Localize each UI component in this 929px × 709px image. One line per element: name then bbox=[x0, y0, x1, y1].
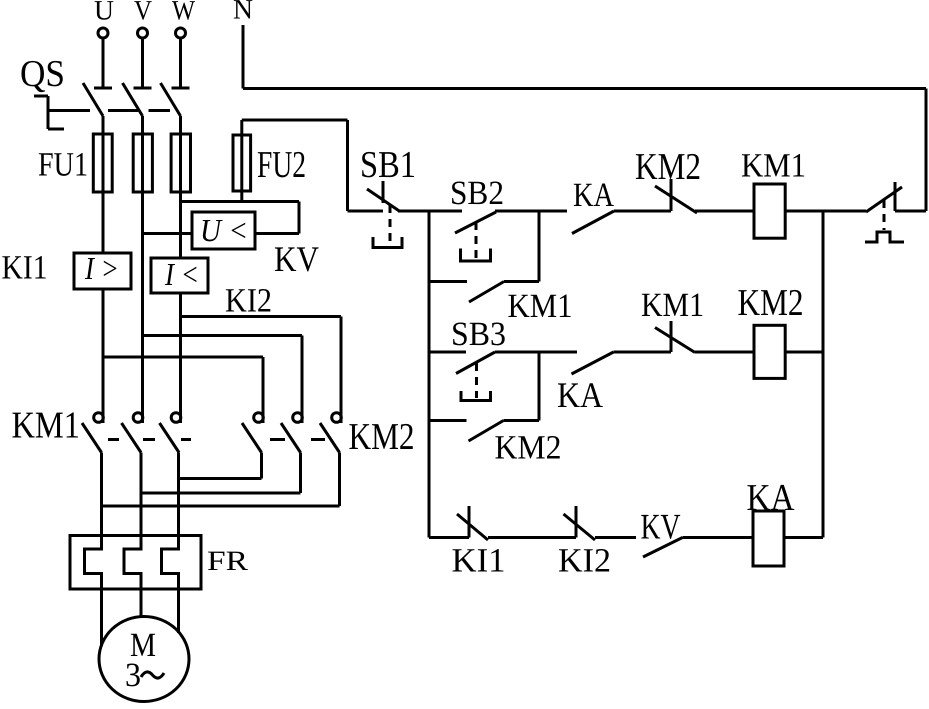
FR heater element 1 bbox=[85, 536, 102, 590]
disconnect switch QS pole W bbox=[161, 83, 190, 134]
rung3: wire bus to KI1 bbox=[429, 536, 469, 539]
wire V fuse down bbox=[141, 192, 144, 423]
wire KM1 coil to limit switch bbox=[785, 210, 866, 213]
fuse FU2 bbox=[233, 120, 251, 202]
terminal W bbox=[176, 28, 186, 38]
svg-text:KM1: KM1 bbox=[12, 405, 81, 447]
wire W terminal to QS bbox=[179, 38, 182, 88]
svg-text:FR: FR bbox=[207, 546, 248, 577]
svg-text:KM2: KM2 bbox=[635, 146, 701, 188]
contact KV NO bbox=[643, 538, 683, 558]
wire U terminal to QS bbox=[102, 38, 105, 88]
svg-text:FU2: FU2 bbox=[257, 144, 306, 186]
svg-text:KM2: KM2 bbox=[495, 430, 562, 467]
svg-text:KM1: KM1 bbox=[508, 288, 573, 325]
svg-text:KI2: KI2 bbox=[225, 283, 272, 320]
wire parallel branch bottom left bbox=[429, 280, 467, 283]
contact KI1 NC bbox=[457, 506, 488, 540]
contactor KM2 main contact 2 bbox=[281, 413, 302, 453]
contactor KM2 main contact 1 bbox=[242, 413, 263, 453]
svg-text:KI1: KI1 bbox=[452, 543, 506, 580]
contactor coil KM2 bbox=[754, 325, 785, 378]
left control bus bbox=[428, 211, 431, 538]
svg-text:SB1: SB1 bbox=[360, 144, 416, 186]
svg-text:KV: KV bbox=[274, 239, 319, 279]
svg-text:QS: QS bbox=[20, 53, 65, 95]
svg-text:3: 3 bbox=[125, 657, 141, 694]
svg-text:U: U bbox=[94, 0, 114, 27]
wire FR to motor 1 bbox=[100, 589, 103, 646]
wire FU2 top to SB1 feed bbox=[242, 120, 348, 211]
wire parallel branch bottom right bbox=[504, 280, 539, 283]
contactor KM1 main contact 2 bbox=[122, 413, 143, 453]
wire KV to KA coil bbox=[683, 536, 754, 539]
svg-text:V: V bbox=[134, 0, 152, 27]
svg-text:KA: KA bbox=[557, 375, 603, 415]
rung2: wire bus to SB3 bbox=[429, 351, 466, 354]
svg-text:I >: I > bbox=[84, 250, 119, 286]
svg-text:KM1: KM1 bbox=[641, 287, 704, 324]
wire KM2-1 output tie bbox=[179, 453, 262, 479]
fuse FU1 pole V bbox=[133, 134, 152, 192]
contact KM2 NC interlock rung1 bbox=[655, 179, 697, 213]
wire KM1-1 output bbox=[100, 453, 103, 536]
QS mechanical linkage dashed bbox=[48, 109, 90, 112]
svg-text:SB2: SB2 bbox=[450, 175, 504, 212]
contact KA NO rung2 bbox=[572, 352, 614, 374]
wire KM2 parallel bottom right bbox=[504, 419, 540, 422]
wire KV coil to V phase bbox=[143, 232, 193, 235]
contactor KM1 main contact 3 bbox=[160, 413, 181, 453]
pushbutton SB3 (NO start rev) bbox=[456, 352, 495, 401]
right control bus bbox=[822, 211, 825, 538]
SB2 parallel branch right leg bbox=[538, 211, 541, 282]
svg-text:KM1: KM1 bbox=[741, 148, 806, 185]
relay coil KA bbox=[753, 511, 784, 566]
wire KI1 to KI2 bbox=[488, 536, 576, 539]
contact KM1 aux (seal-in) bbox=[469, 282, 504, 303]
wire KM2-2 output tie bbox=[141, 453, 301, 494]
KM2 linkage dashes bbox=[270, 438, 325, 441]
contactor coil KM1 bbox=[754, 184, 785, 238]
KM1 linkage dashes bbox=[108, 438, 191, 441]
wire W below KI2 bbox=[179, 293, 182, 423]
FR heater element 3 bbox=[162, 536, 179, 590]
wire SB2 to KA contact bbox=[495, 210, 567, 213]
wire FR to motor 2 bbox=[140, 589, 143, 617]
contact KA NO rung1 bbox=[572, 211, 614, 234]
wire KM2-3 output tie bbox=[102, 453, 340, 507]
svg-text:U <: U < bbox=[200, 212, 248, 248]
KM2 parallel branch right leg bbox=[538, 352, 541, 421]
svg-text:KI1: KI1 bbox=[2, 250, 48, 287]
terminal U bbox=[98, 28, 108, 38]
wire KA to KM1 NC bbox=[614, 351, 672, 354]
wire KM2 parallel bottom left bbox=[429, 419, 467, 422]
contact KI2 NC bbox=[564, 506, 596, 540]
svg-text:KM2: KM2 bbox=[738, 282, 804, 324]
wire SB1 to SB2 bbox=[398, 210, 462, 213]
thermal relay FR box bbox=[70, 536, 201, 590]
relay coil KI1 (I>) bbox=[74, 250, 131, 289]
wire KI2 to KV contact bbox=[595, 536, 636, 539]
wire KV loop top bbox=[181, 202, 300, 234]
wire KA to KM2 NC bbox=[614, 210, 671, 213]
disconnect switch QS pole U bbox=[83, 83, 112, 134]
contactor KM2 main contact 3 bbox=[320, 413, 341, 453]
svg-text:N: N bbox=[233, 0, 253, 26]
pushbutton SB2 (NO start fwd) bbox=[455, 212, 496, 261]
wire KM1 NC to KM2 coil bbox=[695, 351, 754, 354]
relay coil KV (U<) bbox=[192, 212, 255, 249]
contact KM2 aux (seal-in) bbox=[469, 421, 504, 442]
label 3~ bbox=[125, 657, 164, 694]
svg-text:I <: I < bbox=[164, 256, 199, 292]
wire FR to motor 3 bbox=[177, 589, 180, 633]
svg-text:KA: KA bbox=[573, 177, 614, 214]
wire U branch to KM2 pole 1 bbox=[103, 357, 263, 423]
wire V branch to KM2 pole 2 bbox=[143, 336, 303, 424]
wire KM1-3 output bbox=[177, 453, 180, 536]
relay coil KI2 (I<) bbox=[151, 256, 208, 293]
svg-text:KM2: KM2 bbox=[349, 416, 415, 458]
svg-text:SB3: SB3 bbox=[451, 316, 506, 353]
contact KM1 NC interlock rung2 bbox=[655, 321, 695, 353]
wire U below KI1 bbox=[102, 289, 105, 423]
wire W fuse to KI2 coil bbox=[179, 192, 182, 258]
disconnect switch QS pole V bbox=[123, 83, 152, 134]
fuse FU1 pole U bbox=[93, 134, 112, 192]
svg-text:KI2: KI2 bbox=[558, 543, 611, 580]
FR heater element 2 bbox=[124, 536, 141, 590]
wire KM1-2 output bbox=[140, 453, 143, 536]
wire V terminal to QS bbox=[141, 38, 144, 88]
pushbutton SB1 (NC stop) bbox=[348, 181, 403, 248]
limit switch NC bbox=[865, 182, 926, 242]
wire KA coil to right bus bbox=[784, 536, 823, 539]
wire KM2 coil to right bus bbox=[785, 351, 823, 354]
wire SB3 to KA rung2 bbox=[495, 351, 577, 354]
QS manual actuator bracket bbox=[34, 96, 64, 129]
terminal V bbox=[138, 28, 148, 38]
N line bbox=[243, 25, 926, 211]
wire W branch to KM2 pole 3 bbox=[181, 317, 342, 424]
svg-text:FU1: FU1 bbox=[38, 147, 88, 184]
motor M circle bbox=[99, 617, 189, 702]
wire U fuse to KI1 coil bbox=[102, 192, 105, 253]
fuse FU1 pole W bbox=[171, 134, 190, 192]
svg-text:W: W bbox=[172, 0, 195, 27]
contactor KM1 main contact 1 bbox=[82, 413, 103, 453]
wire KM2 NC to KM1 coil bbox=[695, 210, 754, 213]
